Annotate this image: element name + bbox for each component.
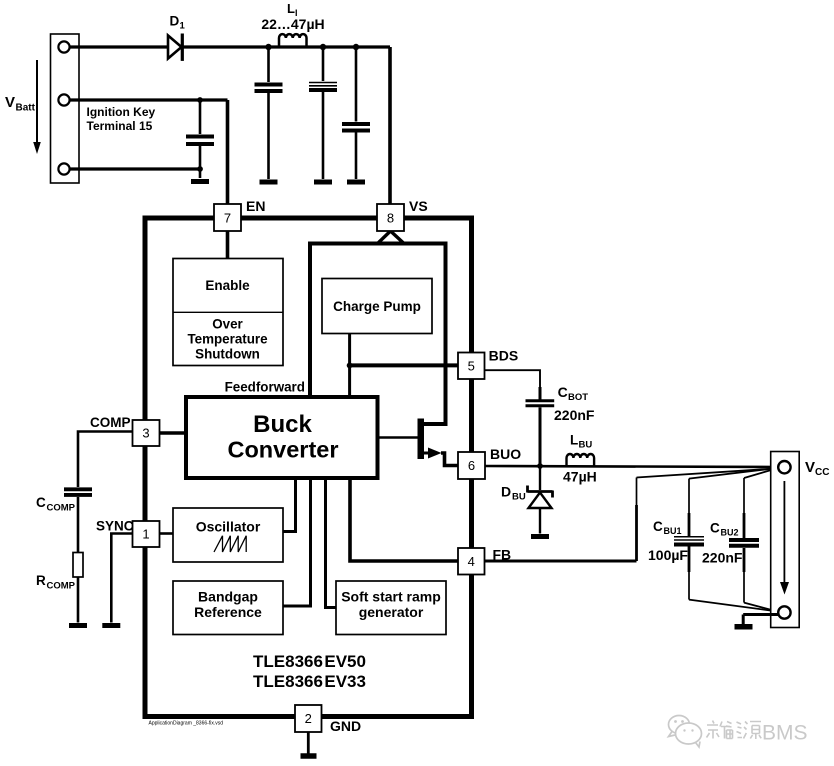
svg-text:Buck: Buck [253,411,312,438]
svg-text:Ignition Key: Ignition Key [87,105,156,119]
svg-text:TLE8366 EV50: TLE8366 EV50 [253,652,366,671]
svg-text:BU1: BU1 [664,526,682,536]
svg-text:COMP: COMP [47,581,76,592]
svg-text:L: L [570,433,578,448]
svg-text:FB: FB [493,547,512,563]
svg-text:Converter: Converter [227,437,338,463]
svg-text:VS: VS [409,198,428,214]
svg-text:Terminal 15: Terminal 15 [87,119,153,133]
svg-text:Shutdown: Shutdown [195,347,260,362]
svg-text:BU2: BU2 [721,528,739,538]
svg-text:Feedforward: Feedforward [225,379,305,394]
svg-text:100µF: 100µF [648,547,688,563]
svg-text:EN: EN [246,198,265,214]
svg-text:Soft start ramp: Soft start ramp [341,589,441,605]
svg-text:COMP: COMP [90,415,131,430]
svg-text:Bandgap: Bandgap [198,589,258,605]
svg-text:R: R [36,573,46,588]
svg-text:CC: CC [815,467,829,478]
svg-text:47µH: 47µH [563,469,597,485]
svg-text:2: 2 [305,711,312,726]
svg-text:generator: generator [359,604,424,620]
svg-text:6: 6 [468,458,475,473]
svg-text:V: V [5,94,15,111]
svg-text:220nF: 220nF [554,407,595,423]
svg-text:D: D [501,484,511,500]
svg-text:BU: BU [512,492,526,503]
svg-text:BU: BU [579,440,593,451]
svg-text:Reference: Reference [194,604,262,620]
svg-text:C: C [558,384,568,400]
svg-text:BUO: BUO [490,446,521,462]
svg-text:V: V [805,459,815,476]
svg-text:Enable: Enable [205,278,250,293]
svg-text:ApplicationDiagram _8366-fix.v: ApplicationDiagram _8366-fix.vsd [149,721,224,727]
svg-text:C: C [710,521,720,536]
svg-text:C: C [36,495,46,510]
svg-text:4: 4 [468,554,475,569]
svg-text:Oscillator: Oscillator [196,519,261,535]
svg-text:8: 8 [387,211,394,226]
svg-text:COMP: COMP [47,503,76,514]
svg-text:1: 1 [180,21,186,32]
svg-text:L: L [287,1,295,16]
svg-text:1: 1 [142,527,149,542]
svg-text:BMS: BMS [762,722,808,745]
svg-text:BDS: BDS [489,348,519,364]
svg-text:Over: Over [212,317,243,332]
svg-text:22…47µH: 22…47µH [261,16,324,32]
svg-text:5: 5 [468,359,475,374]
svg-text:Temperature: Temperature [187,332,267,347]
svg-text:SYNC: SYNC [96,519,134,534]
svg-text:220nF: 220nF [702,550,743,566]
svg-text:Charge Pump: Charge Pump [333,299,421,314]
svg-text:C: C [653,519,663,534]
svg-text:3: 3 [142,426,149,441]
svg-text:D: D [170,14,180,29]
svg-text:GND: GND [330,718,361,734]
svg-text:BOT: BOT [568,392,588,403]
svg-text:Batt: Batt [16,103,36,114]
svg-text:TLE8366 EV33: TLE8366 EV33 [253,672,366,691]
svg-text:7: 7 [224,211,231,226]
